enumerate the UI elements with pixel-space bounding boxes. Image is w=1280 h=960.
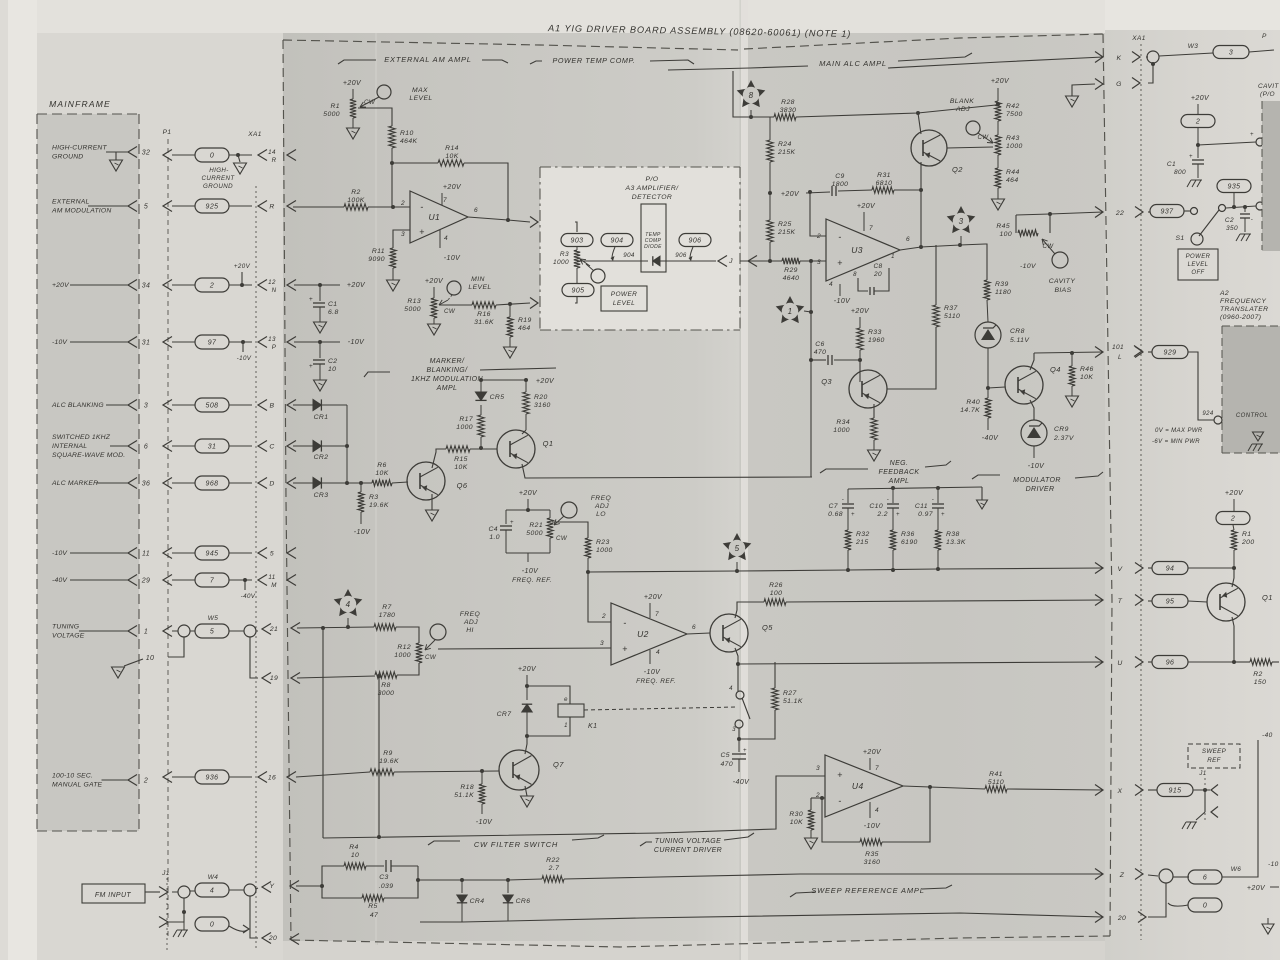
op-amp U3 [826, 219, 900, 281]
svg-text:10K: 10K [1080, 374, 1093, 381]
arrow T to Q1 base [1148, 600, 1152, 602]
svg-text:5110: 5110 [944, 313, 960, 320]
svg-text:3: 3 [1229, 50, 1233, 57]
svg-text:+: + [419, 227, 425, 237]
chassis ground below C1 [1187, 180, 1191, 187]
svg-text:Q1: Q1 [543, 439, 554, 448]
svg-text:SWITCHED 1KHZ: SWITCHED 1KHZ [52, 434, 111, 441]
J1 coax arrows [1211, 785, 1218, 796]
svg-text:464K: 464K [400, 138, 418, 145]
Q4 emitter to CR9 [1030, 400, 1034, 420]
svg-text:+: + [743, 748, 747, 754]
resistor R37 5110 [935, 245, 937, 305]
resistor R42 7500 [995, 101, 1001, 121]
svg-text:2: 2 [143, 778, 148, 785]
svg-text:P1: P1 [163, 129, 172, 136]
svg-text:3160: 3160 [864, 859, 881, 866]
svg-text:150: 150 [1254, 679, 1267, 686]
diode CR2 [313, 440, 321, 451]
svg-text:7500: 7500 [1006, 111, 1023, 118]
capacitor C2 10uF [319, 342, 321, 358]
svg-text:2: 2 [1230, 516, 1235, 523]
svg-text:903: 903 [571, 238, 584, 245]
cable marker 906 [679, 234, 711, 247]
svg-text:ALC MARKER: ALC MARKER [51, 480, 98, 487]
C4/R21 loop top [506, 509, 550, 511]
U2 pin3 wire from R12 wiper [438, 648, 611, 649]
svg-text:S1: S1 [1175, 235, 1184, 242]
R4/C3 parallel block [322, 866, 344, 886]
svg-text:2: 2 [400, 200, 405, 207]
wire J arrow to R29 [748, 256, 757, 267]
U3 output wire [900, 244, 985, 250]
svg-text:U: U [1117, 660, 1122, 667]
resistor R23 1000 [585, 538, 591, 558]
svg-text:-: - [1251, 217, 1253, 223]
svg-text:(0960-2007): (0960-2007) [1220, 314, 1261, 321]
node R16/R19 [496, 303, 530, 305]
svg-text:R36: R36 [901, 531, 915, 538]
svg-text:K: K [1117, 55, 1122, 62]
arrow J out of A3 [718, 256, 727, 267]
svg-text:350: 350 [1226, 225, 1238, 232]
svg-text:CW: CW [444, 308, 456, 315]
svg-text:2.7: 2.7 [548, 865, 560, 872]
svg-text:R38: R38 [946, 531, 960, 538]
W3 connector circle [1146, 56, 1148, 58]
wire row D [293, 482, 313, 484]
svg-text:NEG.: NEG. [890, 460, 909, 467]
svg-text:C7: C7 [829, 503, 839, 510]
svg-text:-10V: -10V [834, 298, 851, 305]
svg-text:R27: R27 [783, 690, 797, 697]
svg-text:EXTERNAL AM AMPL: EXTERNAL AM AMPL [384, 55, 472, 64]
svg-text:14: 14 [268, 149, 276, 156]
svg-text:10: 10 [146, 655, 155, 662]
svg-text:R11: R11 [372, 248, 385, 255]
svg-text:TRANSLATER: TRANSLATER [1220, 306, 1268, 313]
svg-text:0: 0 [1203, 903, 1207, 910]
svg-text:Y: Y [270, 883, 275, 890]
svg-text:P: P [1262, 33, 1267, 40]
svg-text:6: 6 [906, 236, 910, 243]
svg-text:R4: R4 [349, 844, 359, 851]
svg-text:100: 100 [770, 590, 783, 597]
resistor R2 100K [344, 204, 368, 210]
wire row C [293, 445, 313, 447]
svg-text:BLANK: BLANK [950, 98, 974, 105]
svg-text:10: 10 [351, 852, 359, 859]
transistor Q5 [710, 614, 748, 652]
svg-text:5: 5 [144, 204, 148, 211]
Q4 collector riser [1030, 353, 1034, 370]
resistor R8 3000 [375, 672, 397, 678]
svg-text:REF: REF [1207, 757, 1221, 764]
svg-text:MODULATOR: MODULATOR [1013, 477, 1061, 484]
svg-text:+20V: +20V [1247, 885, 1266, 892]
svg-text:B: B [270, 403, 275, 410]
svg-text:GROUND: GROUND [203, 183, 233, 190]
svg-text:7: 7 [655, 611, 659, 618]
svg-text:+20V: +20V [347, 282, 366, 289]
cable marker 935 oval [1217, 180, 1251, 193]
svg-text:1000: 1000 [553, 259, 569, 266]
svg-text:1180: 1180 [995, 289, 1011, 296]
connector row 925 [163, 201, 172, 212]
svg-text:+20V: +20V [857, 203, 876, 210]
diode CR5 [475, 392, 486, 400]
J1 connector arrows [159, 887, 168, 898]
resistor R33 1960 [857, 328, 863, 350]
wire 915 to J1 [1193, 789, 1210, 791]
svg-text:5000: 5000 [323, 111, 340, 118]
svg-text:32: 32 [142, 150, 151, 157]
svg-text:L: L [1118, 354, 1122, 361]
svg-text:MAIN ALC AMPL: MAIN ALC AMPL [819, 59, 887, 68]
svg-text:5000: 5000 [526, 530, 543, 537]
Q1 right emitter [1232, 617, 1234, 662]
svg-text:20: 20 [1117, 915, 1126, 922]
svg-text:0: 0 [210, 153, 214, 160]
paper crease light band [740, 0, 741, 960]
svg-text:1: 1 [564, 723, 568, 729]
resistor R31 6810 [872, 187, 894, 193]
svg-text:3: 3 [144, 403, 148, 410]
wire pin21 to R7 [297, 627, 374, 628]
svg-text:R45: R45 [996, 223, 1010, 230]
svg-text:215: 215 [855, 539, 869, 546]
svg-text:R3: R3 [369, 494, 379, 501]
svg-text:R42: R42 [1006, 103, 1020, 110]
wire R26 to T arrow [786, 600, 1103, 602]
title A1 YIG DRIVER BOARD ASSEMBLY [547, 23, 851, 39]
U4 feedback R35 3160 [822, 798, 860, 842]
svg-text:6: 6 [474, 207, 478, 214]
svg-text:U1: U1 [429, 212, 441, 222]
svg-text:CW: CW [556, 535, 568, 542]
svg-text:Q1: Q1 [1262, 593, 1273, 602]
wire circle to 20 arrow [1148, 883, 1166, 917]
wire pin16 to R9 [296, 772, 370, 777]
svg-text:100K: 100K [347, 197, 365, 204]
svg-text:925: 925 [206, 204, 219, 211]
A3 pot knob [591, 269, 605, 283]
svg-text:+20V: +20V [781, 191, 800, 198]
pin 10 wire to W5 shield [168, 637, 184, 657]
diode CR1 [313, 399, 321, 410]
svg-text:+: + [510, 520, 514, 526]
wire R31 to Q2 emitter [894, 189, 921, 191]
svg-text:-10V: -10V [522, 568, 539, 575]
diode CR4 [460, 878, 464, 882]
svg-text:10: 10 [328, 366, 336, 373]
svg-text:11: 11 [142, 551, 150, 558]
resistor R46 10K [1071, 353, 1073, 366]
svg-text:R6: R6 [377, 462, 387, 469]
wire R7 to R12 [396, 627, 419, 643]
svg-text:R30: R30 [789, 811, 803, 818]
ground below C1 [314, 322, 327, 333]
switch S1 wire from 937 [1150, 205, 1184, 218]
arrow V [1095, 563, 1103, 574]
svg-text:12: 12 [268, 279, 276, 286]
cable marker 929 oval [1135, 347, 1143, 358]
J1 dotted line right [1204, 778, 1206, 820]
svg-text:34: 34 [142, 283, 151, 290]
svg-text:1960: 1960 [868, 337, 885, 344]
svg-text:TUNING VOLTAGE: TUNING VOLTAGE [655, 838, 721, 845]
capacitor C1 6.8uF [319, 285, 321, 301]
svg-text:C8: C8 [873, 263, 882, 270]
svg-text:+: + [622, 644, 628, 654]
svg-text:XA1: XA1 [1131, 35, 1146, 42]
svg-text:R21: R21 [529, 522, 543, 529]
svg-text:470: 470 [720, 761, 733, 768]
Q4 base wire [988, 387, 1005, 388]
A2 cavity dark box top right [1262, 101, 1280, 251]
svg-text:215K: 215K [777, 149, 796, 156]
row 22 wire [1016, 212, 1103, 215]
test point star 3 [947, 206, 976, 233]
svg-text:-40V: -40V [982, 435, 999, 442]
svg-text:J: J [728, 258, 733, 265]
svg-text:P: P [272, 344, 277, 351]
svg-text:5: 5 [270, 551, 274, 558]
svg-text:8: 8 [853, 272, 857, 278]
svg-text:R15: R15 [454, 456, 468, 463]
svg-text:6: 6 [1203, 875, 1207, 882]
transistor Q1 right strip [1207, 583, 1245, 621]
svg-text:C11: C11 [915, 503, 928, 510]
arrow Z to circle [1148, 875, 1158, 876]
svg-text:-: - [838, 796, 841, 806]
svg-text:+20V: +20V [52, 282, 70, 289]
svg-text:Z: Z [1119, 872, 1125, 879]
svg-text:6810: 6810 [876, 180, 893, 187]
svg-text:3: 3 [600, 640, 604, 647]
svg-text:R40: R40 [966, 399, 980, 406]
svg-text:2: 2 [209, 283, 214, 290]
Q5 emitter to U wire [735, 648, 738, 664]
svg-text:CURRENT: CURRENT [201, 175, 235, 182]
svg-text:CONTROL: CONTROL [1236, 413, 1268, 419]
section label CW FILTER SWITCH [428, 841, 460, 845]
op-amp U4 [825, 755, 903, 817]
node R3/R6 [347, 482, 372, 484]
svg-text:FREQ. REF.: FREQ. REF. [512, 577, 552, 584]
svg-text:19: 19 [270, 675, 278, 682]
wire to oval 3 [1159, 53, 1213, 56]
capacitor C6 470 [811, 359, 826, 361]
relay K1 coil [527, 686, 570, 704]
test point star 1 [776, 296, 805, 323]
svg-text:+20V: +20V [536, 378, 555, 385]
transistor Q6 [407, 462, 445, 500]
svg-text:C: C [269, 444, 274, 451]
svg-text:GROUND: GROUND [52, 154, 83, 161]
svg-text:R17: R17 [459, 416, 473, 423]
resistor R39 1180 [984, 280, 990, 300]
svg-text:4: 4 [829, 281, 833, 288]
svg-text:POWER: POWER [611, 291, 638, 298]
ground below R13 [433, 318, 435, 324]
node +20V mid rail [768, 191, 772, 195]
svg-text:95: 95 [1166, 599, 1175, 606]
ground below R11 [387, 280, 400, 291]
svg-text:+: + [837, 770, 843, 780]
wire R29 to U3 pin3 [800, 260, 826, 262]
svg-text:3830: 3830 [780, 107, 797, 114]
svg-text:R31: R31 [877, 172, 891, 179]
J1 dotted line [166, 878, 168, 950]
svg-text:R14: R14 [445, 145, 459, 152]
svg-text:U3: U3 [851, 245, 863, 255]
svg-text:4640: 4640 [783, 275, 800, 282]
svg-text:BIAS: BIAS [1054, 287, 1071, 294]
svg-text:2.37V: 2.37V [1053, 435, 1075, 442]
svg-text:+20V: +20V [863, 749, 882, 756]
svg-text:C6: C6 [815, 341, 825, 348]
wire row B [293, 404, 313, 406]
svg-text:0V = MAX PWR: 0V = MAX PWR [1155, 428, 1203, 434]
resistor R20 3160 [525, 380, 527, 392]
svg-text:20: 20 [268, 935, 277, 942]
svg-text:7: 7 [875, 765, 879, 772]
svg-text:W6: W6 [1231, 866, 1242, 873]
svg-text:LEVEL: LEVEL [468, 284, 491, 291]
resistor R32 215 [845, 530, 851, 550]
svg-text:W3: W3 [1188, 43, 1199, 50]
svg-text:929: 929 [1164, 350, 1177, 357]
svg-text:R20: R20 [534, 394, 548, 401]
svg-text:+20V: +20V [519, 490, 538, 497]
svg-text:TUNING: TUNING [52, 624, 79, 631]
op-amp U2 [611, 603, 687, 665]
svg-text:P/O: P/O [646, 176, 659, 183]
Y bus to Z arrow [564, 874, 1103, 879]
svg-text:-10V: -10V [644, 669, 661, 676]
svg-text:X: X [1117, 788, 1123, 795]
wire W6 up right [1222, 740, 1258, 877]
mechanical link dashed to switch [584, 707, 737, 710]
svg-text:4: 4 [729, 686, 733, 692]
svg-text:MAINFRAME: MAINFRAME [49, 99, 111, 109]
ground below R30 [805, 838, 818, 849]
Q6 collector to R15 [432, 449, 446, 468]
resistor R6 10K [372, 480, 392, 486]
FM input shield to ground [168, 898, 184, 922]
svg-text:C5: C5 [721, 752, 731, 759]
arrow V XA1 to oval 94 [1148, 567, 1152, 569]
C4/R21 loop bottom [506, 552, 550, 554]
capacitor C5 470uF [738, 739, 740, 752]
oval 6 W6 [1173, 876, 1189, 878]
svg-text:R46: R46 [1080, 366, 1094, 373]
svg-text:AMPL: AMPL [888, 478, 910, 485]
resistor R17 1000 [480, 437, 482, 448]
svg-text:1000: 1000 [833, 427, 850, 434]
svg-text:CW FILTER SWITCH: CW FILTER SWITCH [474, 840, 558, 849]
svg-text:-10V: -10V [444, 255, 461, 262]
node U1 inverting input [368, 206, 410, 208]
svg-text:POWER TEMP COMP.: POWER TEMP COMP. [552, 56, 635, 65]
zener CR9 2.37V [1021, 420, 1047, 446]
wire 94 to Q1 collector node [1188, 567, 1234, 569]
svg-text:ADJ: ADJ [594, 503, 609, 510]
svg-text:4: 4 [444, 235, 448, 242]
svg-text:Q3: Q3 [821, 377, 832, 386]
svg-text:800: 800 [1174, 169, 1186, 176]
cable marker 3 oval [1213, 46, 1249, 59]
svg-text:R1: R1 [331, 103, 341, 110]
svg-text:R9: R9 [383, 750, 393, 757]
wire 19 from W5 [250, 637, 258, 678]
svg-text:3: 3 [401, 231, 405, 238]
svg-text:470: 470 [814, 349, 827, 356]
capacitor C7 0.68uF [847, 489, 849, 503]
svg-text:U2: U2 [637, 629, 649, 639]
wire H to 905 [575, 297, 577, 303]
svg-text:G: G [1116, 81, 1122, 88]
svg-text:21: 21 [269, 626, 278, 633]
oval 0 bottom right [1188, 898, 1222, 912]
test point star 4 [334, 589, 363, 616]
svg-text:20: 20 [873, 271, 882, 278]
potentiometer R45 100 [1015, 215, 1017, 233]
svg-text:R13: R13 [407, 298, 421, 305]
svg-text:1.0: 1.0 [489, 534, 500, 541]
chassis ground in A2 box [1253, 432, 1264, 441]
section label SWEEP REFERENCE AMPL [790, 892, 816, 897]
svg-text:+20V: +20V [851, 308, 870, 315]
svg-text:-40V: -40V [733, 779, 750, 786]
resistor R10 464K [389, 126, 395, 148]
svg-text:FREQUENCY: FREQUENCY [1220, 298, 1266, 305]
resistor R5 47 [322, 886, 362, 898]
node R25/R29 pin3 [768, 259, 772, 263]
switch S1 blade [1199, 210, 1219, 236]
diode CR6 [462, 879, 508, 881]
resistor R34 1000 [871, 418, 877, 440]
svg-text:HIGH-CURRENT: HIGH-CURRENT [52, 145, 108, 152]
svg-text:924: 924 [1202, 411, 1213, 417]
svg-text:-10V: -10V [52, 550, 68, 557]
resistor R1 200 [1231, 530, 1237, 550]
svg-text:FM INPUT: FM INPUT [95, 892, 132, 899]
resistor R22 2.7 [508, 879, 542, 880]
switch blade [742, 698, 750, 719]
resistor R14 10K [438, 160, 464, 166]
U2 output to Q5 [687, 633, 710, 634]
wire Q5 emitter to U arrow [738, 662, 1103, 664]
svg-text:36: 36 [142, 481, 151, 488]
svg-text:+: + [309, 296, 313, 303]
wire from pin R to R2 [293, 206, 344, 208]
section label EXTERNAL AM AMPL [338, 60, 376, 64]
node Q1 base / R17 [470, 448, 497, 450]
transistor Q3 [849, 370, 887, 408]
ground below R19 [504, 347, 517, 358]
wire 19-row to sweep bus [378, 676, 380, 837]
svg-text:SWEEP: SWEEP [1202, 748, 1227, 755]
svg-text:DETECTOR: DETECTOR [632, 194, 672, 201]
svg-text:945: 945 [206, 551, 219, 558]
wire R21 to R23 [552, 522, 588, 538]
svg-text:FREQ: FREQ [591, 495, 612, 502]
svg-text:+20V: +20V [1225, 490, 1244, 497]
svg-text:7: 7 [210, 578, 215, 585]
svg-text:CAVITY: CAVITY [1049, 278, 1076, 285]
